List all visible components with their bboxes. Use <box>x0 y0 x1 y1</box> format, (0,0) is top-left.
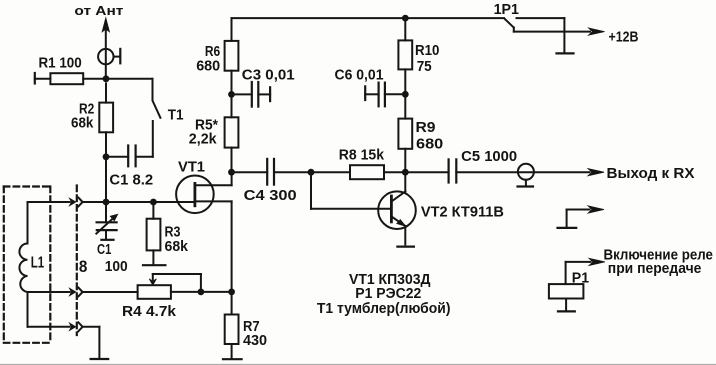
svg-text:Т1: Т1 <box>168 106 184 123</box>
svg-text:Т1 тумблер(любой): Т1 тумблер(любой) <box>317 301 451 317</box>
svg-text:R1 100: R1 100 <box>39 56 82 72</box>
svg-text:С1 8.2: С1 8.2 <box>109 172 153 188</box>
svg-text:Выход к RX: Выход к RX <box>607 165 695 182</box>
svg-text:R3: R3 <box>165 225 181 241</box>
svg-text:680: 680 <box>196 59 220 75</box>
svg-text:68k: 68k <box>165 239 189 255</box>
svg-text:С3 0,01: С3 0,01 <box>242 68 295 84</box>
svg-text:680: 680 <box>416 136 443 152</box>
svg-text:75: 75 <box>417 59 432 75</box>
svg-text:С6 0,01: С6 0,01 <box>335 68 384 84</box>
svg-text:430: 430 <box>243 333 267 349</box>
svg-text:100: 100 <box>105 258 128 275</box>
svg-text:2,2k: 2,2k <box>189 132 218 148</box>
svg-text:R10: R10 <box>415 43 439 59</box>
svg-text:С1: С1 <box>97 242 111 258</box>
svg-text:P1: P1 <box>572 269 589 286</box>
svg-text:Р1 РЭС22: Р1 РЭС22 <box>355 286 421 302</box>
svg-text:L1: L1 <box>31 255 45 272</box>
svg-text:при передаче: при передаче <box>608 260 702 277</box>
svg-text:VT2 КТ911В: VT2 КТ911В <box>421 203 504 220</box>
svg-text:R4 4.7k: R4 4.7k <box>122 304 177 320</box>
svg-text:+12В: +12В <box>609 29 639 46</box>
svg-text:8: 8 <box>79 258 88 276</box>
svg-text:R8 15k: R8 15k <box>339 148 385 164</box>
svg-text:от Ант: от Ант <box>74 4 123 18</box>
svg-text:VT1: VT1 <box>178 159 205 176</box>
svg-text:R9: R9 <box>416 120 436 136</box>
svg-text:С5 1000: С5 1000 <box>461 149 517 165</box>
svg-text:С4 300: С4 300 <box>244 188 297 204</box>
svg-text:1P1: 1P1 <box>494 1 519 18</box>
svg-text:68k: 68k <box>71 116 94 132</box>
